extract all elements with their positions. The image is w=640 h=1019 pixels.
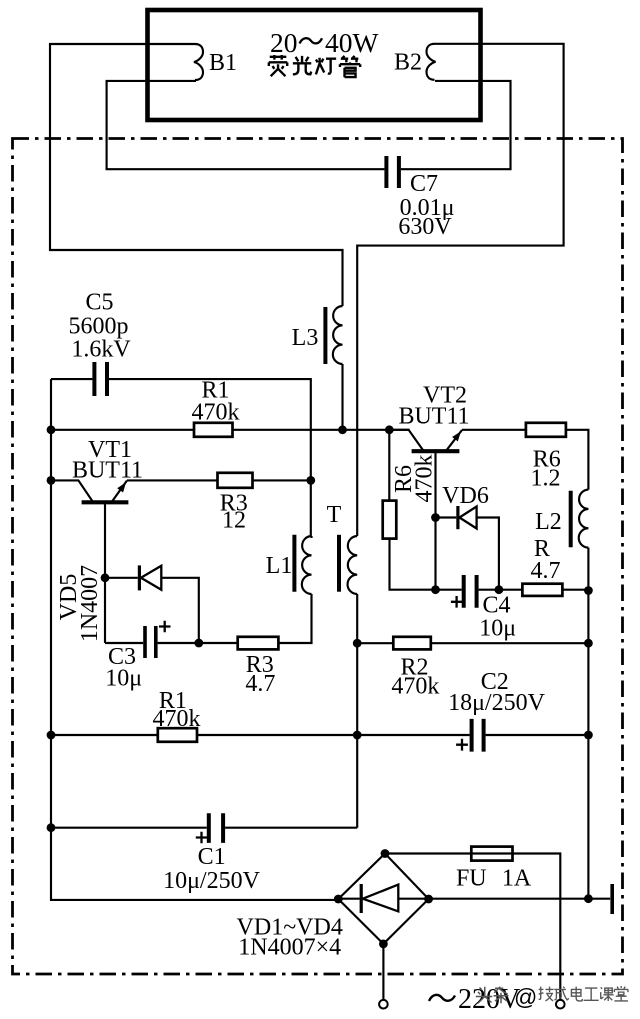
capacitor C3 (145, 626, 156, 658)
svg-text:1.2: 1.2 (531, 466, 561, 492)
node C4 right (495, 585, 504, 594)
node VD6 anode (431, 513, 440, 522)
node C1 rail left (47, 823, 56, 832)
transistor VT2 base lead (434, 451, 436, 590)
node L1 top (306, 476, 315, 485)
transistor VT1 collector lead (51, 480, 93, 502)
resistor R1 470k top (194, 423, 233, 437)
watermark glyph 头 (476, 987, 493, 1004)
plus sign C1 (196, 832, 207, 844)
svg-text:BUT11: BUT11 (398, 404, 469, 430)
inductor L2 coil (579, 490, 589, 548)
svg-text:L3: L3 (292, 325, 319, 351)
wire C3 line left (105, 642, 143, 644)
wire R3 to L1 node (253, 479, 311, 481)
svg-text:20: 20 (270, 27, 298, 58)
wire R6 470k bottom to C4 line (390, 539, 462, 590)
node R1 bottom rail left (47, 731, 56, 740)
svg-text:VD6: VD6 (442, 483, 489, 509)
AC terminal left (379, 1000, 388, 1009)
wire VT1 emitter to R3 (127, 479, 218, 481)
svg-text:C7: C7 (410, 171, 438, 197)
AC terminal right (556, 1000, 565, 1009)
ballast enclosure dash-dot border (13, 139, 623, 975)
node bridge top (381, 849, 390, 858)
wire B1 top to left rail corner and across to L3 (50, 44, 343, 306)
capacitor C4 (464, 575, 477, 608)
filament B1 (194, 44, 203, 80)
resistor R3 12 (218, 473, 253, 488)
wire VD6 right down to C4 line (477, 518, 499, 590)
resistor R6 1.2 (526, 423, 566, 437)
svg-text:12: 12 (222, 508, 246, 534)
plus sign C4 (451, 596, 462, 608)
wire R 4.7 to right rail (562, 589, 588, 591)
wire VT2 emitter to R6 1.2 (462, 429, 526, 431)
node C3 right (194, 639, 203, 648)
watermark glyph 技 (539, 987, 554, 1001)
node VD5 anode (101, 573, 110, 582)
capacitor C2 (472, 719, 484, 752)
bridge rectifier diamond (338, 854, 428, 944)
svg-text:B2: B2 (394, 50, 422, 76)
left vertical rail (51, 379, 339, 900)
transistor VT2 base bar (412, 449, 460, 453)
resistor R2 470k (393, 637, 431, 650)
svg-text:1N4007×4: 1N4007×4 (238, 935, 341, 961)
junction node dots (47, 425, 593, 948)
inductor L2 core bar (569, 491, 573, 548)
svg-text:@: @ (514, 984, 537, 1010)
wire T winding bottom down to C1 rail corner (356, 594, 358, 828)
plus sign C2 (456, 739, 468, 751)
watermark glyph 课 (601, 987, 614, 1001)
node bridge right rail (584, 894, 593, 903)
svg-text:4.7: 4.7 (245, 671, 275, 697)
resistor R3 4.7 (238, 637, 279, 650)
diode VD6 cathode bar (456, 506, 459, 529)
transistor VT2 emitter lead (446, 430, 462, 451)
fluorescent tube box (148, 10, 481, 120)
watermark glyph 工 (584, 988, 599, 1000)
title glyph 灯 (316, 58, 336, 75)
transistor VT1 base bar (82, 500, 129, 504)
label ~220V (429, 995, 455, 1001)
inductor L1 core bar (292, 535, 296, 592)
wire C5 left (51, 378, 92, 380)
wire bridge bottom to AC terminal (382, 944, 384, 1000)
wire VD5 right down to C3 line (161, 578, 199, 643)
wire bridge top to fuse (385, 852, 471, 854)
transformer T right winding coil (348, 536, 358, 594)
wire C3 line to R3 4.7 (158, 642, 238, 644)
svg-text:T: T (327, 502, 342, 528)
node R4.7 right rail (584, 586, 593, 595)
node VT1 collector rail left (47, 476, 56, 485)
fuse FU through wire (471, 852, 512, 854)
svg-text:1N4007: 1N4007 (77, 565, 103, 642)
rail with C1 (51, 827, 357, 829)
inductor L1 coil (302, 536, 312, 594)
top rail with R1 (51, 429, 410, 431)
bridge diode stub right (398, 898, 428, 900)
transformer T core bar (337, 535, 341, 592)
svg-text:1.6kV: 1.6kV (71, 337, 131, 363)
svg-text:18μ/250V: 18μ/250V (448, 690, 546, 716)
title glyph 光 (293, 56, 311, 74)
plus sign C3 (159, 621, 171, 633)
svg-text:L2: L2 (535, 509, 562, 535)
resistor R6 470k (383, 501, 397, 539)
transistor VT1 emitter arrow (117, 482, 126, 492)
watermark glyph 电 (571, 987, 582, 1001)
wire node to L1 top (310, 480, 313, 538)
wire B1 bottom to C7 (107, 81, 385, 169)
rail with R2 (357, 642, 588, 644)
wire fuse to AC terminal right (513, 854, 561, 1000)
title glyph 荧 (269, 55, 287, 76)
diode VD5 triangle (141, 566, 161, 590)
node VT2 collector (385, 425, 394, 434)
svg-text:1A: 1A (502, 866, 532, 892)
node C2 rail mid (353, 731, 362, 740)
wire L3 bottom to rail (341, 364, 343, 430)
svg-text:C5: C5 (85, 290, 113, 316)
wire bridge right to case tap (429, 898, 611, 900)
svg-text:C1: C1 (198, 844, 226, 870)
capacitor C5 (94, 362, 107, 396)
node C5/R1 rail left (47, 425, 56, 434)
bridge diode cathode bar (360, 884, 363, 913)
bridge diode stub left (338, 898, 359, 900)
watermark glyph 堂 (614, 986, 628, 1001)
node T bottom R2 rail (353, 639, 362, 648)
wire R3 4.7 right up to L1 (278, 594, 311, 643)
resistor R1 470k bottom (158, 728, 197, 742)
svg-text:10μ: 10μ (479, 616, 516, 642)
inductor L3 coil (333, 306, 343, 364)
resistor R 4.7 (522, 584, 562, 596)
svg-text:10μ: 10μ (105, 666, 142, 692)
node VT2 base bottom (431, 585, 440, 594)
svg-text:FU: FU (456, 866, 487, 892)
node C2 rail right (584, 731, 593, 740)
inductor L3 core bar (323, 307, 327, 364)
right vertical rail (587, 548, 589, 899)
transistor VT1 emitter lead (112, 481, 127, 503)
transistor VT2 emitter arrow (452, 431, 461, 441)
watermark glyph 条 (494, 987, 509, 1004)
svg-text:630V: 630V (398, 214, 452, 240)
fuse FU body (471, 847, 512, 861)
watermark glyph 成 (554, 987, 568, 1001)
node R2 rail right (584, 639, 593, 648)
node bridge right (424, 895, 433, 904)
svg-text:470k: 470k (412, 455, 438, 503)
svg-text:L1: L1 (266, 553, 293, 579)
node bridge bottom (379, 940, 388, 949)
capacitor C1 (209, 813, 223, 843)
wire B2 top down to T primary (357, 44, 563, 536)
diode VD5 cathode bar (138, 565, 141, 590)
filament B2 (427, 44, 436, 80)
wire VD6 left (436, 516, 457, 518)
capacitor C7 (386, 156, 399, 188)
wire R6 1.2 to right rail corner (566, 430, 589, 490)
transistor VT2 collector lead (389, 430, 424, 451)
svg-text:10μ/250V: 10μ/250V (163, 868, 261, 894)
node bridge left (334, 895, 343, 904)
bridge diode triangle (363, 885, 399, 912)
title glyph 管 (340, 56, 360, 77)
wire C7 right to B2 bottom (401, 81, 511, 169)
svg-text:40W: 40W (325, 27, 379, 58)
wire VD5 left (105, 577, 138, 579)
wire C5 right down to VT1 rail (109, 379, 311, 480)
transistor VT1 base lead (104, 502, 106, 643)
svg-text:470k: 470k (192, 400, 240, 426)
svg-text:470k: 470k (153, 706, 201, 732)
case tap bar (610, 884, 614, 914)
svg-text:B1: B1 (209, 50, 237, 76)
rail with R1 470k bottom and C2 (51, 734, 588, 736)
diode VD6 triangle (459, 507, 476, 529)
svg-text:4.7: 4.7 (531, 558, 561, 584)
wire C4 right to R 4.7 (479, 589, 523, 591)
node L3 bottom (338, 425, 347, 434)
wire rail dot down to R6 470k (388, 430, 390, 501)
svg-text:470k: 470k (391, 674, 439, 700)
